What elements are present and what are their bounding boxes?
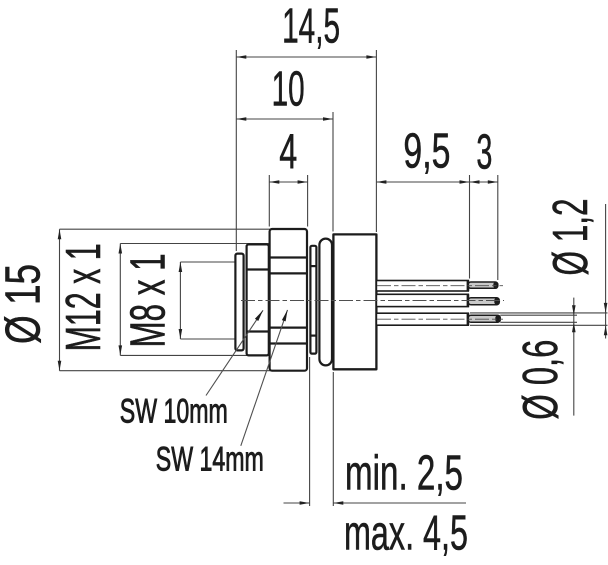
small hex SW10: [247, 244, 269, 355]
big hex facet line 2: [270, 272, 307, 274]
centerline wire 1 (over parts): [377, 285, 503, 287]
svg-text:3: 3: [476, 126, 492, 180]
ext line pin3 bottom edge: [500, 321, 577, 323]
arrow 10 left: [236, 117, 246, 121]
ext line 4 left: [268, 175, 270, 227]
svg-text:9,5: 9,5: [403, 125, 450, 179]
ext line 14,5/9,5 shared right at body edge: [375, 50, 377, 232]
wire 2: [376, 294, 468, 306]
arrow M12 bottom: [119, 345, 123, 355]
svg-text:SW 14mm: SW 14mm: [156, 441, 264, 479]
svg-text:M12 x 1: M12 x 1: [57, 243, 111, 351]
small hex facet line bottom: [247, 330, 269, 332]
dim line 4: [269, 181, 307, 183]
svg-text:Ø 1,2: Ø 1,2: [544, 199, 598, 276]
ext line 10 right: [332, 112, 334, 232]
dim line min/max right tail: [333, 502, 466, 504]
pin 3: [468, 315, 500, 322]
small hex facet line top: [247, 268, 269, 270]
svg-text:M8 x 1: M8 x 1: [122, 254, 176, 348]
wire 3: [376, 313, 468, 325]
dim line dia 1,2: [605, 204, 607, 339]
arrow dia15 bottom: [58, 361, 62, 371]
svg-text:10: 10: [272, 63, 305, 117]
arrow dia1,2 lower: [604, 325, 608, 335]
front washer disc: [235, 254, 243, 351]
arrow 4 right: [298, 180, 308, 184]
rear washer: [310, 246, 316, 354]
svg-text:4: 4: [279, 125, 297, 179]
O-ring: [319, 239, 332, 366]
svg-text:14,5: 14,5: [282, 0, 340, 54]
arrow leader SW14: [282, 309, 290, 321]
arrow 9,5 left: [376, 180, 386, 184]
pin 1: [468, 282, 498, 288]
svg-text:Ø 0,6: Ø 0,6: [514, 340, 568, 420]
big hex facet line 4: [270, 342, 307, 344]
arrow dia15 top: [58, 229, 62, 239]
arrow dia0,6 upper: [572, 305, 576, 315]
dim bracket M12x1: [119, 244, 121, 356]
big hex facet line 1: [270, 256, 307, 258]
centerline wire 3 (over parts): [377, 318, 503, 320]
dim line dia15: [59, 229, 61, 371]
rear washer line top: [310, 265, 316, 267]
arrow 10 right: [323, 117, 333, 121]
svg-text:max. 4,5: max. 4,5: [344, 507, 468, 561]
ext line min/max right: [332, 372, 334, 506]
big hex SW14: [270, 229, 307, 371]
dim line 9,5: [376, 181, 469, 183]
arrow 14,5 right: [366, 55, 376, 59]
wire 3 end face: [467, 313, 470, 325]
arrow 3 left: [470, 180, 480, 184]
arrow M8 bottom: [179, 329, 183, 339]
svg-text:SW 10mm: SW 10mm: [120, 392, 228, 430]
ext line wire3 bottom edge: [470, 324, 608, 326]
arrow 9,5 right: [460, 180, 470, 184]
ext line 9,5/3 shared: [469, 175, 471, 279]
wire 1 end face: [467, 281, 470, 292]
leader SW 10mm: [206, 310, 263, 395]
dim line dia 0,6: [573, 298, 575, 416]
arrow dia0,6 lower: [572, 322, 576, 332]
tick M12 top: [120, 243, 270, 245]
svg-text:Ø 15: Ø 15: [0, 264, 51, 344]
ext line 3 right: [497, 175, 499, 280]
rear washer line bottom: [310, 335, 316, 337]
ext line pin3 top edge: [500, 314, 577, 316]
dim line min/max left tail: [284, 502, 310, 504]
dim bracket M8x1: [179, 262, 181, 339]
arrow 3 right: [488, 180, 498, 184]
ext line 4 right: [307, 175, 309, 227]
ext line 14,5 left: [235, 50, 237, 251]
arrow 14,5 left: [236, 55, 246, 59]
tick M8 top: [180, 261, 235, 263]
big hex facet line 3: [270, 327, 307, 329]
ext line min/max left: [309, 357, 311, 506]
wire 2 end face: [467, 294, 470, 306]
ext line wire3 top edge: [470, 312, 608, 314]
leader SW 14mm: [241, 310, 288, 446]
tick M12 bottom: [120, 354, 270, 356]
dim line 3: [470, 181, 498, 183]
ext line dia15 bottom: [60, 370, 271, 372]
body cylinder: [333, 234, 376, 369]
arrow min/max right (tip at right ext, pointing left): [333, 501, 343, 505]
tick M8 bottom: [180, 338, 235, 340]
arrow min/max left (tip at left ext, pointing right): [300, 501, 310, 505]
arrow 4 left: [269, 180, 279, 184]
wire 1: [376, 281, 468, 292]
dim line 10: [236, 118, 333, 120]
centerline main axis (over parts): [241, 300, 504, 302]
arrow leader SW10: [255, 309, 265, 321]
arrow dia1,2 upper: [604, 303, 608, 313]
pin 2: [468, 298, 499, 305]
arrow M12 top: [119, 244, 123, 254]
svg-text:min. 2,5: min. 2,5: [345, 446, 463, 500]
arrow M8 top: [179, 262, 183, 272]
ext line dia15 top: [60, 228, 271, 230]
dim line 14,5: [236, 56, 376, 58]
